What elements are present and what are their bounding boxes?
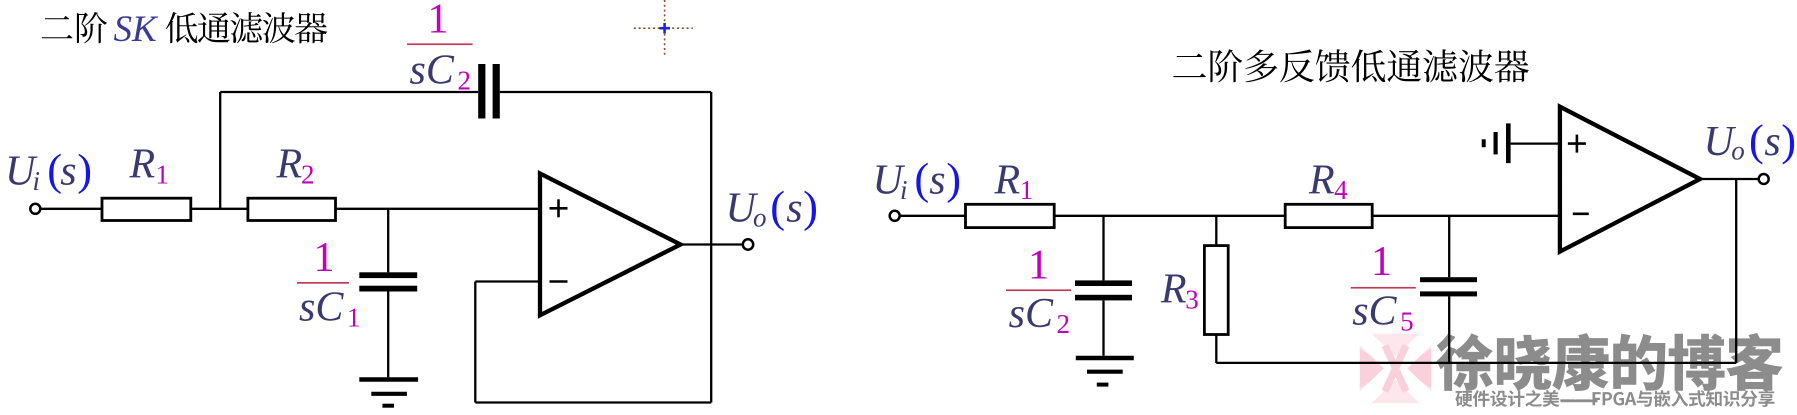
wire R1 to R2 [191,208,248,210]
wire R4 to op-amp inverting input [1372,215,1560,217]
watermark logo side triangles [1360,349,1390,389]
wire feedback left vertical [474,282,476,403]
node Uo output terminal [743,239,753,249]
svg-text:sC: sC [410,48,455,94]
svg-text:): ) [803,182,818,232]
svg-text:1: 1 [428,0,449,43]
svg-text:): ) [77,144,92,194]
svg-text:i: i [33,166,41,196]
capacitor C1 plates [359,272,417,278]
resistor R1 (circuit 2) [966,204,1055,227]
svg-text:2: 2 [301,160,315,190]
watermark logo white cross band [1362,335,1430,401]
wire R3 to bottom wire [1215,335,1217,363]
svg-text:R: R [129,142,156,188]
node Ui input terminal [30,204,40,214]
svg-text:s: s [1764,119,1780,165]
op-amp U1 plus sign [550,207,568,210]
wire C1 to ground [387,292,389,378]
svg-text:3: 3 [1185,284,1199,314]
capacitor C2 plates [478,64,485,119]
node Ui input terminal (circuit 2) [890,211,900,221]
resistor R4 [1285,204,1372,227]
op-amp U2 [1560,107,1700,252]
wire op-amp output (circuit 2) [1700,178,1759,180]
svg-text:sC: sC [1352,289,1397,335]
svg-text:s: s [786,186,802,232]
title circuit 1 二阶 (CJK) [42,12,107,43]
wire feedback right vertical [710,92,712,403]
svg-text:1: 1 [156,160,170,190]
wire feedback bottom [475,401,711,403]
wire feedback right vertical (circuit 2) [1735,179,1737,363]
wire op-amp output [681,243,744,245]
svg-text:2: 2 [458,66,472,96]
watermark subtitle [1455,390,1774,407]
label 1/sC2 fraction bar (circuit 2) [1006,289,1071,291]
op-amp U2 minus sign [1573,213,1589,216]
svg-text:5: 5 [1400,307,1414,337]
resistor R3 [1204,246,1228,335]
wire C5 to bottom wire [1448,296,1450,363]
svg-text:SK: SK [114,9,160,50]
svg-text:(: ( [1749,115,1764,165]
op-amp U2 plus sign [1568,142,1586,145]
svg-text:o: o [753,203,767,233]
label 1/sC1 fraction bar [297,282,349,284]
node Uo output terminal (circuit 2) [1759,174,1769,184]
title circuit 2 二阶多反馈低通滤波器 (CJK) [1173,49,1529,82]
svg-text:(: ( [914,154,929,204]
svg-text:R: R [276,142,303,188]
svg-text:1: 1 [347,303,361,333]
svg-text:R: R [994,157,1021,203]
ground (C1) [359,377,418,382]
svg-text:R: R [1308,157,1335,203]
watermark logo X tile [1360,334,1432,403]
title circuit 1 低通滤波器 (CJK) [166,12,328,43]
crosshair blue plus [659,27,670,30]
wire R2 to op-amp noninverting input [336,208,541,210]
label 1/sC5 fraction bar [1351,287,1416,289]
ground (op-amp + input) [1506,123,1511,163]
wire inverting input feedback horizontal [475,280,540,282]
watermark subtitle dash bridge [1561,400,1598,403]
svg-text:sC: sC [1009,291,1054,337]
resistor R1 [102,198,191,220]
wire ground to op-amp noninverting input [1511,142,1560,144]
svg-text:1: 1 [1020,175,1033,205]
svg-text:): ) [1781,115,1796,165]
svg-text:s: s [929,158,945,204]
svg-text:R: R [1160,267,1187,313]
svg-text:4: 4 [1334,175,1348,205]
svg-text:1: 1 [314,235,335,281]
label 1/sC2 fraction bar [407,43,473,45]
watermark text 徐晓康的博客 [1436,333,1782,391]
wire bottom feedback (circuit 2) [1216,362,1736,364]
svg-text:2: 2 [1057,309,1071,339]
wire input to R1 [41,208,103,210]
svg-text:1: 1 [1028,243,1049,289]
svg-text:i: i [900,175,908,205]
svg-text:o: o [1731,135,1745,165]
node junction R1-R2 to top wire [219,92,221,209]
op-amp U1 minus sign [550,280,568,283]
op-amp U1 [540,174,681,316]
capacitor C5 plates [1420,277,1477,282]
ground (C2 circuit 2) [1076,356,1134,361]
svg-text:s: s [60,148,76,194]
crosshair dotted horizontal [634,27,693,29]
wire junction to R3 [1215,216,1217,246]
capacitor C2 plates (circuit 2) [1075,280,1132,286]
watermark logo center X [1385,346,1406,392]
wire top feedback left segment [220,91,478,93]
wire junction to C1 [387,209,389,272]
crosshair dotted vertical [664,0,666,58]
svg-text:(: ( [770,182,785,232]
wire input to R1 (circuit 2) [900,215,966,217]
resistor R2 [248,198,336,220]
wire junction to C2 (circuit 2) [1102,216,1104,281]
svg-text:sC: sC [299,285,344,331]
wire R1 to R4 [1054,215,1285,217]
wire junction to C5 [1448,216,1450,277]
wire C2 to ground (circuit 2) [1102,300,1104,355]
svg-text:): ) [946,154,961,204]
wire top feedback right segment [500,91,711,93]
svg-text:1: 1 [1371,239,1392,285]
